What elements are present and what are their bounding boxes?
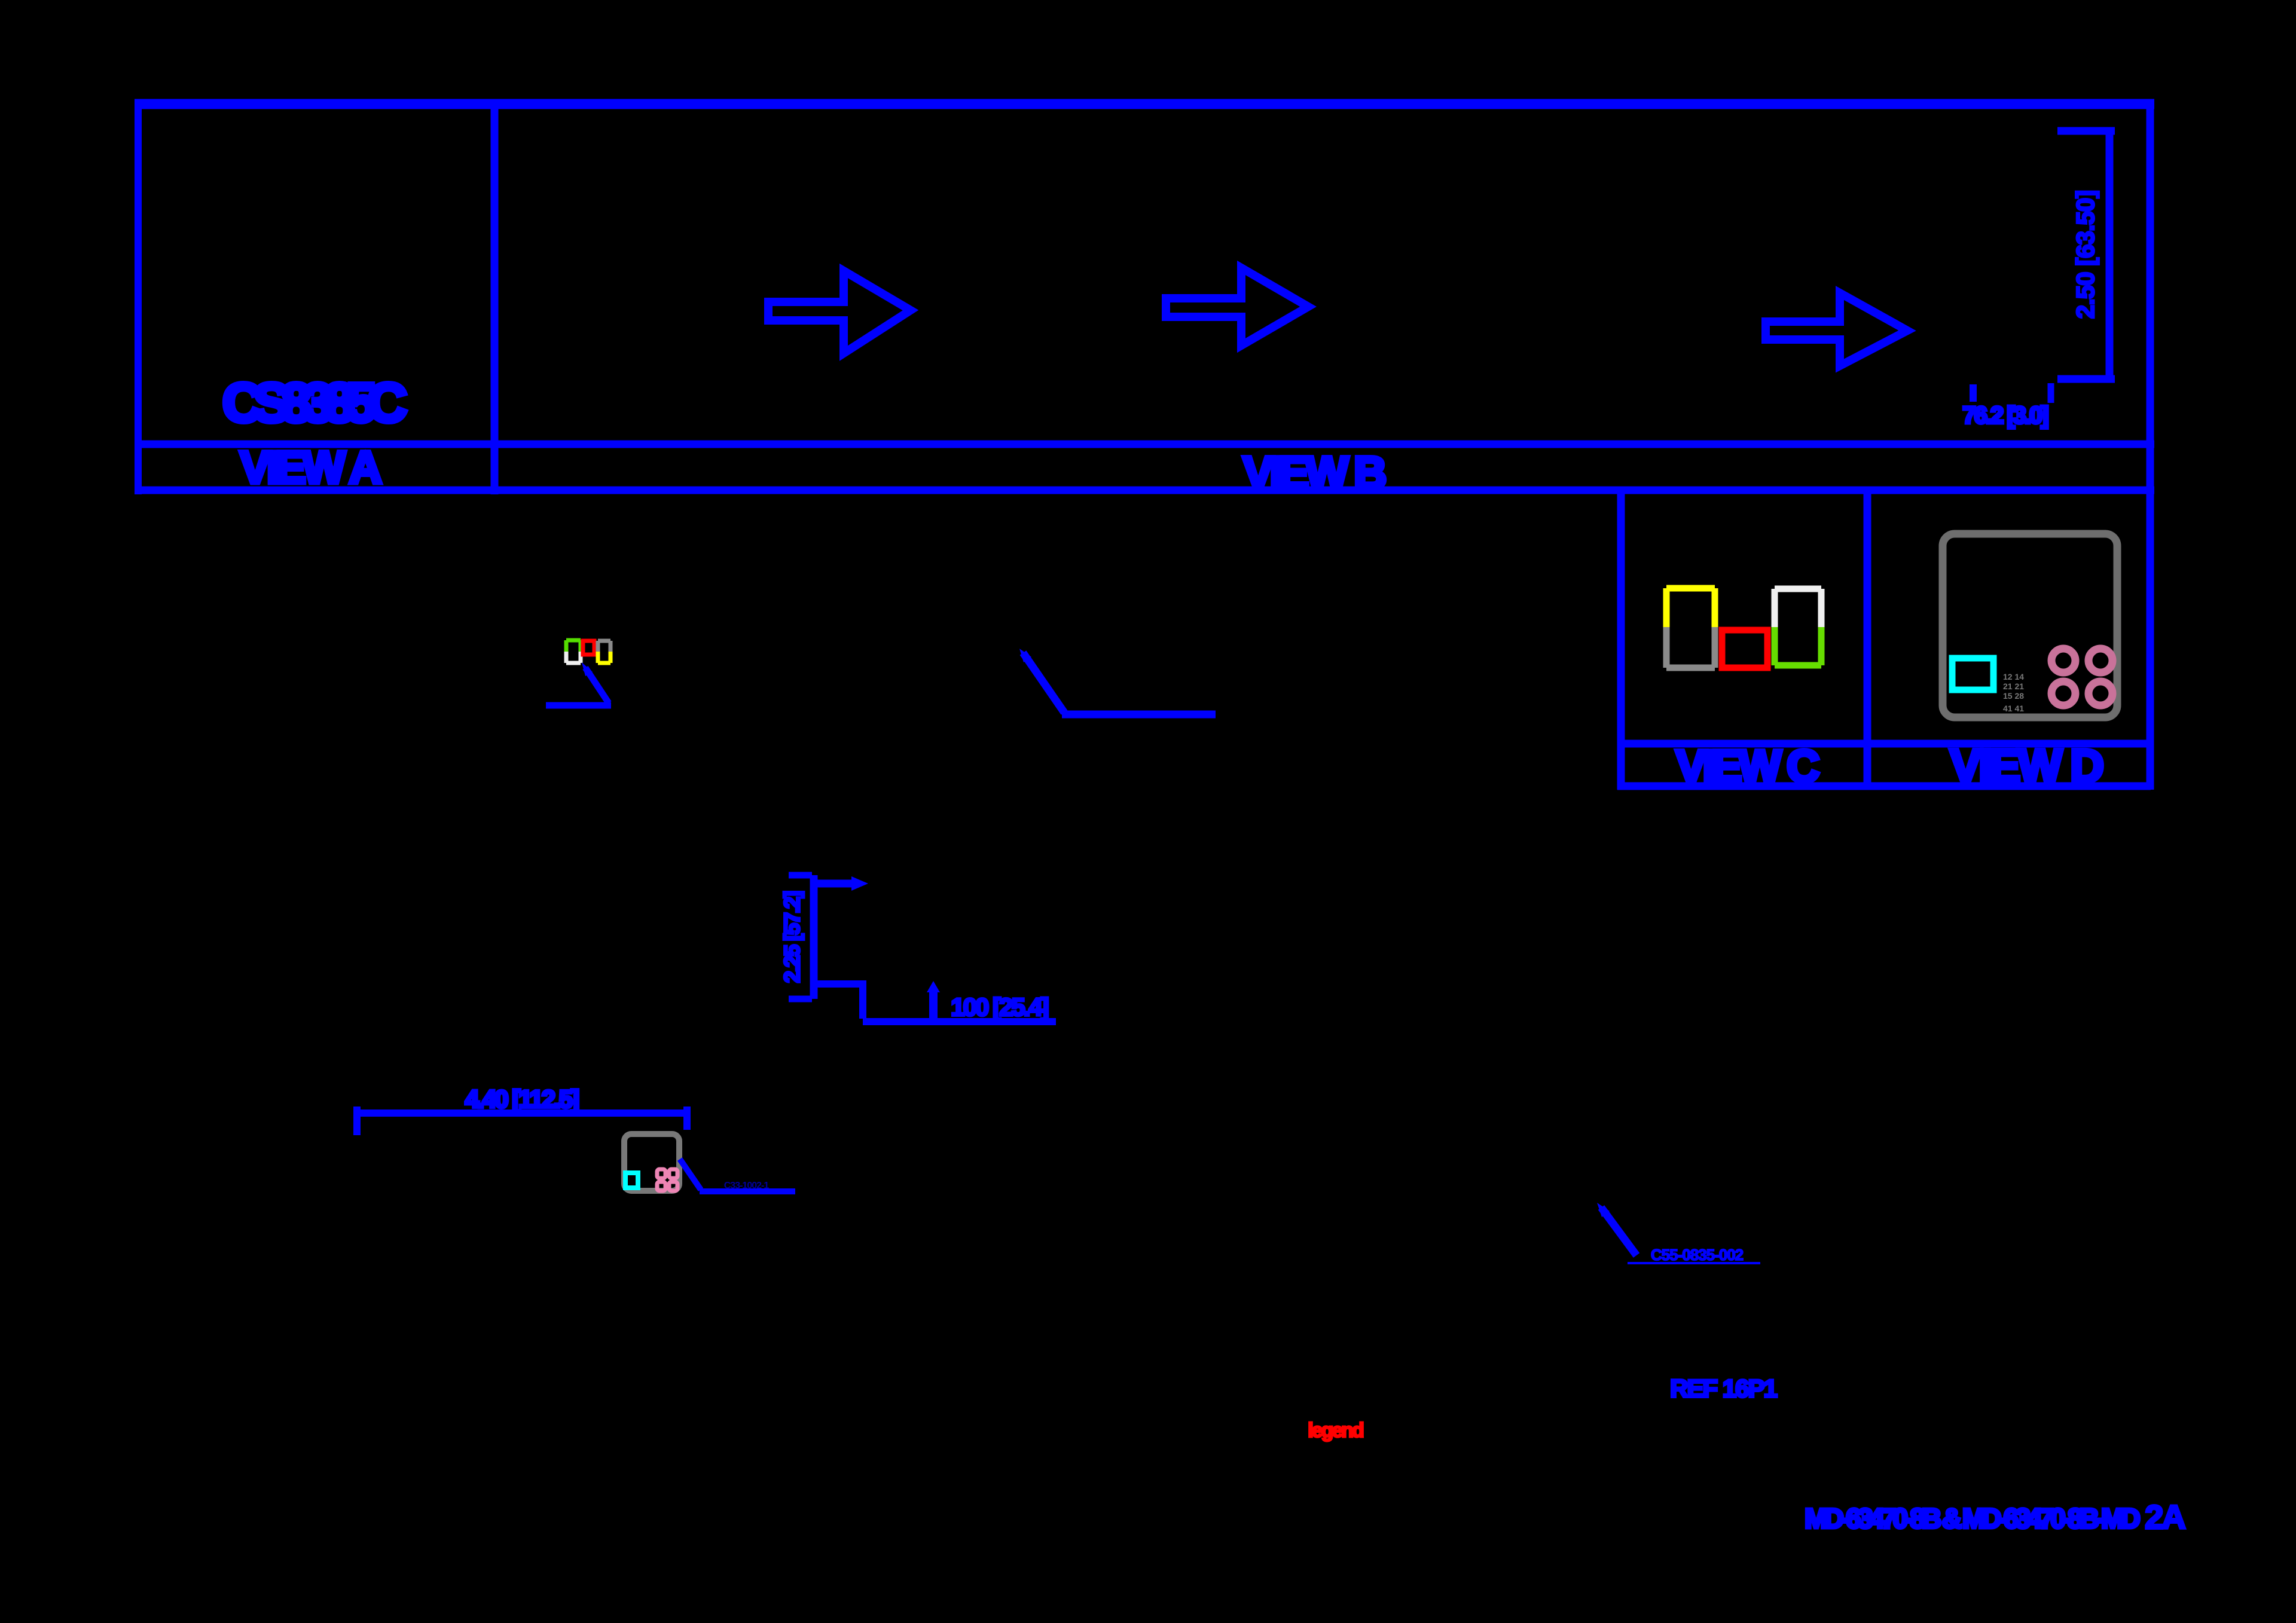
VIEW D gray housing <box>1943 534 2117 717</box>
svg-text:76.2 [3.0]: 76.2 [3.0] <box>1962 402 2048 429</box>
panel C/D left border <box>1617 487 1625 790</box>
svg-text:MD-63470-8B & MD-63470-8B-MD: MD-63470-8B & MD-63470-8B-MD <box>1805 1503 2139 1534</box>
svg-text:REF 16P1: REF 16P1 <box>1670 1374 1777 1402</box>
dimension bracket right of VIEW B: bottom tick <box>2057 375 2115 383</box>
svg-text:41 41: 41 41 <box>2003 704 2024 713</box>
leader 2 diagonal <box>1023 653 1064 713</box>
VIEW D pink circle 2 <box>2089 649 2112 673</box>
svg-text:legend: legend <box>1308 1419 1363 1442</box>
svg-text:2.50 [63.50]: 2.50 [63.50] <box>2071 191 2099 319</box>
svg-text:12 14: 12 14 <box>2003 672 2024 681</box>
VIEW D pink circle 4 <box>2089 681 2112 705</box>
leader 3 arrowhead <box>1597 1203 1610 1217</box>
leader 4 diagonal <box>680 1159 701 1190</box>
VIEW D tiny text rows <box>2003 672 2024 713</box>
VIEW D cyan connector <box>1952 658 1993 690</box>
dimension bracket right of VIEW B: top tick <box>2057 127 2115 135</box>
horizontal dimension 4.40: line <box>353 1109 691 1117</box>
leader riser with arrow <box>929 990 938 1018</box>
VIEW C right rect white/green <box>1775 589 1821 665</box>
leader 1 horizontal <box>546 702 611 709</box>
svg-text:VIEW D: VIEW D <box>1950 739 2102 792</box>
VIEW D pink circle 1 <box>2051 649 2075 673</box>
frame left border <box>135 99 142 494</box>
small component cluster (upper) left rect green/white <box>566 640 581 663</box>
svg-text:VIEW A: VIEW A <box>240 442 381 493</box>
svg-text:VIEW C: VIEW C <box>1676 741 1818 792</box>
panel C/D bottom border <box>1617 783 2151 790</box>
vertical dimension bottom tick <box>789 996 812 1002</box>
VIEW D pink circle 3 <box>2051 681 2075 705</box>
leader 3 diagonal <box>1601 1208 1636 1255</box>
VIEW C middle red rect <box>1722 630 1767 668</box>
vertical dimension line <box>810 875 818 999</box>
svg-text:4.40 [112.5]: 4.40 [112.5] <box>465 1085 578 1113</box>
panel divider VIEW C / VIEW D <box>1864 487 1871 790</box>
dimension bracket leader stub left <box>1970 384 1977 402</box>
svg-text:CS8385C: CS8385C <box>222 372 405 433</box>
frame top border <box>135 99 2154 109</box>
leader 4 horizontal <box>700 1188 795 1194</box>
leader 1 arrowhead <box>582 662 593 676</box>
leader underline <box>863 1018 1056 1025</box>
arrow 3 (VIEW B) <box>1766 293 1907 366</box>
vertical dimension top leader <box>814 880 856 888</box>
svg-text:100 [25.4]: 100 [25.4] <box>951 993 1048 1021</box>
svg-text:21 21: 21 21 <box>2003 681 2024 691</box>
VIEW C left rect yellow/gray <box>1666 588 1715 668</box>
lower component gray housing <box>624 1134 679 1191</box>
vertical dimension top leader arrowhead <box>851 876 868 891</box>
svg-text:2A: 2A <box>2145 1498 2185 1536</box>
horizontal dimension left end tick <box>353 1107 361 1135</box>
vertical dimension bottom leader path <box>814 984 863 1019</box>
svg-text:VIEW B: VIEW B <box>1243 448 1385 499</box>
frame right border <box>2147 99 2154 790</box>
small component cluster middle red rect <box>583 641 594 655</box>
divider VIEW A / VIEW B <box>491 99 499 494</box>
horizontal dimension right end tick <box>683 1107 691 1130</box>
dimension bracket leader stub right <box>2048 383 2054 403</box>
lower component cyan connector <box>625 1173 638 1188</box>
lower component pink connectors <box>657 1169 677 1191</box>
svg-text:15 28: 15 28 <box>2003 691 2024 701</box>
dimension bracket right of VIEW B: vertical line <box>2106 131 2114 379</box>
arrow 2 (VIEW B) <box>1166 268 1308 346</box>
view label band lower line <box>135 487 2154 494</box>
panel C/D label band upper line <box>1617 740 2151 748</box>
vertical dimension (lower left): top tick <box>789 872 812 879</box>
svg-text:C33-1002-1: C33-1002-1 <box>724 1181 770 1191</box>
arrow 1 (VIEW B) <box>768 271 911 353</box>
svg-text:C55-0835-002: C55-0835-002 <box>1651 1246 1744 1264</box>
small component cluster right rect gray/yellow <box>598 641 610 663</box>
leader 2 horizontal <box>1062 711 1216 719</box>
leader 1 diagonal <box>585 668 609 703</box>
svg-text:2.25 [57.2]: 2.25 [57.2] <box>780 892 804 983</box>
view label band upper line <box>135 441 2154 448</box>
leader 3 underline <box>1628 1262 1760 1264</box>
leader 2 arrowhead <box>1019 649 1031 662</box>
